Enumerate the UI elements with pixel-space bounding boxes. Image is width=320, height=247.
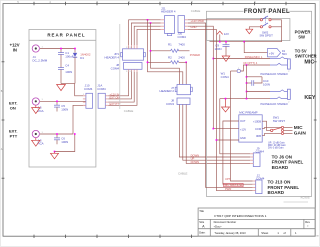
svg-text:COM4: COM4 (178, 35, 187, 39)
title block texts (199, 209, 310, 235)
svg-text:FT817 QRP INTERCONNECTIONS 1: FT817 QRP INTERCONNECTIONS 1 (214, 214, 266, 218)
svg-text:CABLE: CABLE (178, 171, 188, 175)
svg-text:POWER: POWER (295, 29, 311, 34)
junction on +12V wire at C1 (60, 48, 62, 50)
svg-text:HEADER 4: HEADER 4 (161, 10, 176, 14)
junction 12V rail at port (219, 41, 221, 43)
junction at R1 feed (147, 19, 149, 21)
svg-text:GAIN: GAIN (294, 130, 307, 136)
border zone numbers (1, 1, 257, 151)
junction at J3 row (74, 133, 76, 135)
connector J9 COM4 (253, 146, 264, 166)
svg-text:HEADER 4: HEADER 4 (105, 55, 120, 59)
J8 bottom pin stubs (129, 69, 137, 72)
wire key tip row (247, 91, 271, 93)
svg-text:100N: 100N (65, 70, 72, 74)
junction R1 on bus B (150, 50, 152, 52)
power switch box (207, 19, 290, 41)
capacitor C9 (215, 42, 230, 56)
phonejack KEY J2 (261, 89, 291, 106)
connector J8B CON3 (166, 98, 190, 106)
junction +12V row on bus2 (213, 128, 215, 130)
svg-text:R1: R1 (168, 43, 172, 47)
junction key bus at key tip row (246, 91, 248, 93)
wire J3 right and up to J10 pin 4 (40, 105, 86, 134)
svg-text:MIC: MIC (294, 125, 303, 131)
junction J5 wire at C5 (56, 101, 58, 103)
J10 left pin stubs (83, 96, 86, 106)
svg-text:5NC: 5NC (282, 53, 287, 56)
phonejack MIC J1 (261, 57, 291, 76)
ground return wire from J3 net (55, 134, 75, 152)
ground mid right (222, 99, 230, 112)
svg-text:2400: 2400 (178, 56, 185, 60)
svg-text:R2: R2 (168, 56, 172, 60)
svg-text:CABLE: CABLE (124, 109, 134, 113)
wire J20 pin2 down to J13 row3 (188, 23, 253, 187)
ground under J3 (32, 138, 40, 146)
connector J10 COM4 (84, 84, 93, 109)
junction MIC row on bus2 (213, 58, 215, 60)
J13C left pin stubs (253, 181, 256, 191)
wire switch output down to 12V rail (210, 20, 282, 42)
rear panel title underline (29, 39, 96, 41)
svg-text:COM4: COM4 (256, 149, 265, 153)
front panel box (206, 11, 311, 196)
diode D1 1N4002 (73, 49, 91, 84)
svg-text:PTT: PTT (10, 134, 18, 139)
switch SW1 mic gain (271, 116, 286, 135)
svg-text:CON4: CON4 (221, 75, 229, 79)
svg-text:100N: 100N (263, 83, 270, 87)
rear panel box (29, 30, 96, 168)
capacitor C4 (58, 64, 72, 84)
port TO 5V (268, 49, 288, 57)
ground in power box (246, 29, 253, 34)
wire preamp OUT to MIC AMPLIFIED row (223, 121, 253, 184)
wires SW1 to mic gain label (284, 127, 293, 133)
wire bus A down to J7 (148, 20, 183, 85)
resistor R1 (151, 43, 190, 53)
svg-text:MIC PREAMP: MIC PREAMP (239, 111, 257, 115)
svg-text:IN: IN (13, 48, 17, 53)
junction J3 wire at C6 (56, 133, 58, 135)
junction 12V rail at 5V feed (243, 41, 245, 43)
svg-text:TO J13 ON: TO J13 ON (268, 180, 291, 185)
svg-text:1 2 3 4: 1 2 3 4 (126, 47, 133, 49)
solder point node (231, 68, 241, 73)
svg-text:COM4: COM4 (97, 87, 106, 91)
svg-text:100N: 100N (61, 140, 68, 144)
cable separator line (119, 24, 121, 109)
wire J5 to J10 (40, 100, 86, 102)
junction on +12V wire at D1 (74, 48, 76, 50)
svg-text:100uF: 100uF (65, 55, 73, 59)
net label MIC AMPLIFIED (224, 183, 244, 187)
svg-text:100N: 100N (215, 47, 222, 51)
svg-text:D1: D1 (80, 56, 84, 60)
border zone ticks sides (2, 62, 317, 178)
wires J1A to J8 cable (108, 72, 137, 105)
key bus vertical (246, 65, 248, 99)
wire C1 to C4 (60, 59, 62, 68)
ground under C9 (222, 56, 230, 61)
wire MIC tip row (213, 58, 270, 60)
connector J20 COM4 (178, 16, 187, 39)
page corner mark (316, 235, 318, 237)
wire bus B down to J7 (151, 23, 180, 85)
capacitor C5 (54, 101, 68, 111)
svg-text:SW DPDT: SW DPDT (260, 34, 274, 38)
JP1 top pin stubs (129, 45, 137, 49)
svg-text:REAR PANEL: REAR PANEL (47, 33, 85, 38)
connector J8 COM4 (111, 63, 142, 71)
connector JP1 HEADER 4 (105, 49, 146, 60)
svg-text:BOARD: BOARD (268, 190, 285, 195)
wire J4 to D1 (40, 48, 75, 50)
svg-text:KEY: KEY (304, 95, 315, 101)
J1A right pin stubs (105, 96, 108, 106)
svg-text:100N: 100N (61, 107, 68, 111)
svg-text:COM4: COM4 (256, 177, 265, 181)
J21 left pin stubs (161, 20, 165, 30)
junction key bus at sleeve row (246, 76, 248, 78)
svg-text:EXT.: EXT. (9, 128, 17, 133)
svg-text:FRONT PANEL: FRONT PANEL (272, 160, 304, 165)
mic preamp U1 (239, 111, 262, 143)
svg-text:FRONT PANEL: FRONT PANEL (244, 9, 290, 15)
stamp underline (284, 201, 309, 203)
wires preamp to SW1 (262, 121, 281, 135)
connector J4 (DC jack) (32, 45, 48, 63)
svg-text:SWITCHER: SWITCHER (295, 54, 317, 59)
J9 left pin stubs (250, 154, 253, 164)
svg-text:COM4: COM4 (84, 87, 93, 91)
top cable wires J21 to JP1 (129, 20, 161, 45)
power port +12V (217, 31, 229, 42)
title block outline (198, 208, 315, 236)
wire switch pole2 to ground (249, 27, 260, 29)
svg-text:HEADER 2: HEADER 2 (160, 89, 175, 93)
junction at R2 feed (150, 22, 152, 24)
svg-text:C4: C4 (65, 64, 69, 68)
ground at rear panel bottom (51, 152, 59, 159)
svg-text:+5V: +5V (269, 51, 274, 55)
wire mic sleeve row (247, 76, 263, 78)
svg-text:DC_2.5MM: DC_2.5MM (33, 59, 48, 63)
svg-text:BOARD: BOARD (272, 165, 289, 170)
border zone ticks top (34, 2, 286, 5)
junction at ground return (54, 151, 56, 153)
wire preamp GND row (216, 139, 238, 141)
J8B bottom wires to bottom-right connector (179, 105, 250, 164)
wire key sleeve row (220, 98, 270, 100)
wire J20 pin3 to bus2 (188, 26, 213, 128)
svg-text:7400: 7400 (178, 43, 185, 47)
connector J3 (RCA) (32, 130, 43, 145)
capacitor C1 (58, 49, 74, 59)
svg-text:SW: SW (298, 35, 305, 40)
svg-text:MIC: MIC (304, 60, 314, 66)
svg-text:FRONT PANEL: FRONT PANEL (268, 185, 300, 190)
svg-text:DN: 0 dB Gain: DN: 0 dB Gain (268, 147, 284, 150)
svg-text:TO J6 ON: TO J6 ON (272, 154, 292, 159)
svg-text:CABLE: CABLE (191, 9, 201, 13)
wire ring row to MIC jack (241, 65, 271, 71)
svg-text:TO 5V: TO 5V (295, 48, 307, 53)
wire preamp +12V row (213, 128, 239, 130)
wire D1 bottom to ground (61, 83, 75, 85)
wire J10 pin1 from +12V net (75, 84, 83, 96)
wire R2 down to J7 pin3 (185, 62, 187, 84)
wire key bus down to J9 pin1 (220, 99, 251, 154)
svg-text:ON: ON (10, 106, 16, 111)
wire 12V rail to 5V port (244, 42, 267, 53)
junction key bus at C10 row (246, 82, 248, 84)
capacitor C10 (247, 77, 270, 87)
connector J21 HEADER 4 (161, 6, 176, 35)
connector J13C COM4 (256, 174, 265, 194)
switch SW2 DPDT (260, 16, 274, 38)
svg-text:1 2 3 4: 1 2 3 4 (126, 71, 133, 73)
svg-text:CON3: CON3 (166, 102, 174, 106)
junction GND row on bus3 (216, 139, 218, 141)
wire W1 bus (231, 71, 253, 181)
junction sleeve row at ground (225, 98, 227, 100)
svg-text:EXT.: EXT. (9, 100, 17, 105)
connector J7 HEADER 3 (160, 85, 193, 95)
capacitor C6 (54, 134, 68, 144)
svg-text:SW 3P2T: SW 3P2T (273, 119, 286, 123)
connector J5 (RCA) (32, 98, 43, 113)
border zone ticks bottom (34, 235, 192, 238)
ground under J5 (32, 105, 40, 113)
svg-text:+12V: +12V (10, 43, 20, 48)
wire J20 pin1 to switch (188, 19, 260, 21)
junction R2 right (185, 62, 187, 64)
svg-text:12V: 12V (224, 32, 229, 36)
connector J1A COM4 (97, 84, 106, 109)
J20 right pin stubs (185, 20, 189, 30)
resistor R2 (148, 56, 187, 64)
junction ring row at key bus (246, 64, 248, 66)
junction R2 on bus A (147, 62, 149, 64)
ground under C4/D1 (57, 85, 66, 91)
junction 12V rail at C9 (225, 41, 227, 43)
junction key bus bottom (246, 98, 248, 100)
wire J20 pin4 to bus3 (188, 29, 253, 190)
svg-text:COM4: COM4 (111, 66, 120, 70)
